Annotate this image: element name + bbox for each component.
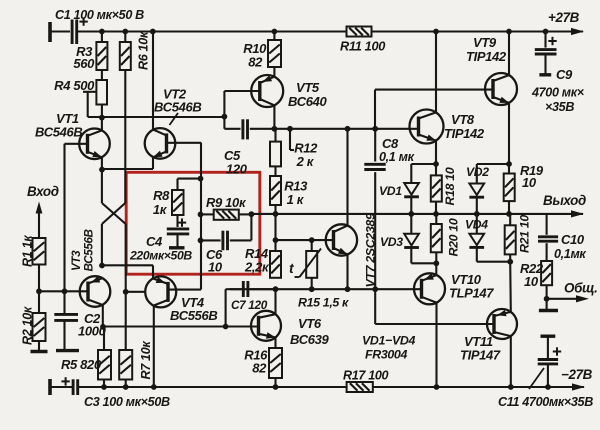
label stub R12 [287,126,294,150]
wire VT5 collector [273,105,275,129]
svg-text:82: 82 [252,361,267,376]
node R15 bottom [309,286,315,292]
svg-text:VD1: VD1 [379,184,402,198]
node VT10 emitter top [433,260,439,266]
svg-text:VT6: VT6 [298,316,322,331]
resistor R2 [21,306,46,345]
svg-text:С9: С9 [556,67,573,82]
node R18 out [433,211,439,217]
node VT11 collector bottom [508,384,514,390]
wire R1-R2 [38,265,40,314]
svg-text:VT3: VT3 [70,250,83,271]
wire cross a [102,203,126,224]
node C8 top [372,126,378,132]
wire common down [546,299,548,309]
svg-text:С1 100 мк×50 В: С1 100 мк×50 В [55,8,144,22]
wire C5 corner [224,117,240,129]
svg-text:VD1−VD4: VD1−VD4 [362,334,415,348]
node R5 bottom [101,384,107,390]
svg-text:TIP142: TIP142 [444,126,485,141]
svg-text:С10: С10 [561,232,585,247]
wire VT7 emitter [346,254,348,289]
wire VT5 base [224,91,259,117]
wire VT8 emitter [435,141,437,164]
node VT3 emitter [99,263,153,269]
svg-text:R1 1к: R1 1к [21,235,35,267]
svg-text:VT9: VT9 [473,35,497,50]
output arrow [543,193,586,218]
node feedback R8 [198,176,204,182]
transistor VT11 [460,309,517,363]
node VD1 out [408,211,414,217]
wire VT8 collector [435,32,437,113]
transistor VT7 [326,213,378,287]
svg-text:10: 10 [208,260,223,275]
node C11 bottom [545,384,551,390]
svg-text:С4: С4 [146,234,163,249]
node VT1 collector [99,105,105,131]
node VT4 base [123,289,146,295]
+27V arrow [548,10,584,35]
diode VD1 [379,183,419,214]
svg-text:Выход: Выход [543,193,586,208]
diode VD3 [380,214,419,263]
svg-text:0,1мк: 0,1мк [554,247,586,261]
wire R2 bottom [38,341,40,352]
wire -rail right [373,386,584,388]
node VT7 emitter [345,286,351,292]
svg-text:ВС546В: ВС546В [35,125,82,140]
wire VT10 collector [435,303,437,387]
transistor VT9 [466,35,517,105]
resistor R16 [244,337,282,387]
node R13 bottom [273,211,279,217]
wire VT4 collector [153,306,155,388]
diodes label [362,334,415,362]
node R3 top [99,29,105,35]
terminator R2 [31,350,48,353]
resistor R10 [243,32,281,77]
node VT4 collector bottom [151,384,157,390]
node R19 out [506,211,512,217]
wire VT1 base [65,144,88,291]
resistor R1 [21,235,46,267]
svg-text:Общ.: Общ. [564,281,598,296]
node R15 top [309,237,315,243]
wire VT11 base leg [375,289,494,324]
capacitor C6 [201,214,252,274]
wire bias line [230,288,375,290]
node VT8 emitter [433,161,439,167]
svg-text:С8: С8 [382,136,399,151]
node VT10 collector bottom [434,384,440,390]
transistor VT4 [145,276,217,323]
wire VT9 base line [375,90,493,128]
svg-text:10: 10 [524,274,539,289]
capacitor C8 [364,129,414,289]
svg-text:VD2: VD2 [466,165,489,179]
node R14 bottom [273,286,279,292]
transistor VT6 [251,311,330,347]
svg-text:R5 820: R5 820 [61,357,102,372]
wire +rail right [372,30,584,32]
svg-text:2,2к: 2,2к [244,260,270,275]
terminator C2 [56,349,79,352]
transistor VT3 [70,229,110,306]
capacitor C5 [224,119,248,176]
node VAS out [272,126,278,132]
wire VT3 emitter net [101,224,103,266]
highlight box around feedback network R8 C4 R9 C6 [126,172,260,274]
resistor R9 [201,195,252,220]
resistor R5 [61,327,111,387]
wire VD1 branch [411,164,436,183]
svg-text:2 к: 2 к [296,154,315,169]
wire VT2 collector [152,32,154,130]
capacitor C10 [538,214,586,261]
common arrow [547,281,598,303]
resistor R7 [119,341,153,387]
svg-text:1 к: 1 к [287,192,305,207]
wire VAS lower line [103,325,259,327]
wire feedback vertical [200,143,202,290]
svg-text:ВС546В: ВС546В [154,100,201,115]
svg-text:Вход: Вход [27,184,59,199]
node VT7 collector top [345,126,351,132]
node C6 left [198,238,204,244]
wire VT11 collector [510,336,512,387]
svg-text:ВС556В: ВС556В [83,229,96,271]
node C9 top [543,29,549,35]
svg-text:TIP142: TIP142 [466,49,507,64]
wire base line VT3 [39,290,88,292]
wire output line [251,213,583,215]
capacitor C3 [61,377,170,409]
diode VD2 [466,165,489,214]
terminator common [539,309,558,312]
thermistor R15 [289,240,349,309]
resistor R13 [270,176,308,207]
node bias-driver junction [372,286,378,292]
wire [50,30,70,32]
resistor R19 [504,163,544,214]
svg-text:ВС640: ВС640 [288,94,328,109]
resistor R6 [120,31,151,70]
transistor VT5 [251,75,327,109]
svg-text:VТ8: VТ8 [451,112,475,127]
svg-text:R15 1,5 к: R15 1,5 к [298,296,349,310]
svg-text:82: 82 [248,55,263,70]
resistor R8 [153,188,184,217]
wire VT9 collector [508,32,510,76]
node VT5 base [222,114,228,120]
svg-text:560: 560 [73,56,95,71]
svg-text:R20 10: R20 10 [447,218,461,256]
node VT3 collector [100,305,106,330]
-27V arrow [561,367,593,391]
resistor R12 [270,129,318,169]
input terminal top-left [48,22,52,42]
wire +rail left [77,30,347,32]
svg-text:R21 10: R21 10 [518,215,532,253]
svg-text:R18 10: R18 10 [443,167,457,205]
node VT1 emitter [99,157,105,203]
svg-text:ВС639: ВС639 [290,332,330,347]
svg-text:4700 мк×: 4700 мк× [531,86,585,100]
svg-text:VD3: VD3 [380,235,403,249]
transistor VT10 [414,272,494,304]
wire bias top line [276,239,334,241]
wire VT4 emitter drop [152,265,154,278]
svg-text:С7 120: С7 120 [231,298,268,312]
resistor R3 [73,32,107,72]
node VT2 collector top [150,29,156,35]
svg-text:VD4: VD4 [465,218,488,232]
node input base [36,288,42,294]
wire VT6 collector [274,289,276,314]
wire VT1 collector line [88,116,225,118]
svg-text:1к: 1к [153,202,168,217]
svg-text:R8: R8 [153,188,170,203]
input terminal bottom-left [48,379,52,395]
wire tail down [125,224,127,350]
node R10 top [272,29,278,35]
capacitor C1 [55,8,144,44]
wire VT10 in [435,263,437,275]
node R9 left [198,212,204,218]
capacitor C9 [531,32,585,115]
node VT11 emitter top [507,259,513,265]
wire R8-C4 [176,215,178,227]
resistor R21 [505,214,532,262]
wire VAS top line [250,128,419,130]
wire VT7 collector [346,129,348,226]
capacitor C11 [498,336,593,409]
svg-text:TIP147: TIP147 [460,348,501,363]
wire VD4 join [477,261,510,263]
input arrow Vhod [27,184,59,238]
wire VD3 join [411,262,436,264]
svg-text:10: 10 [522,175,537,190]
terminator C9 [539,73,551,76]
transistor VT1 [35,111,110,159]
node VT9 collector rail [506,29,512,35]
node R14 top [273,237,279,243]
resistor R11 [340,27,385,54]
terminator C4 [169,246,185,249]
svg-text:0,1 мк: 0,1 мк [379,150,415,164]
wire [50,386,73,388]
wire R12-R13 [274,166,276,176]
node R16 bottom [273,384,279,390]
node feedback tap [249,211,255,217]
svg-text:220мк×50В: 220мк×50В [129,249,192,263]
node VT8 collector rail [433,29,439,35]
wire cross b [102,203,125,224]
svg-text:ВС556В: ВС556В [170,308,217,323]
node C2 top [62,288,68,294]
node R7 bottom [123,384,129,390]
svg-text:R2 10к: R2 10к [21,306,35,345]
svg-text:FR3004: FR3004 [365,348,407,362]
wire VD2 branch [477,164,509,184]
wire R14 top drop [274,214,276,251]
wire VT10 base [375,288,421,290]
svg-text:TLP147: TLP147 [449,286,494,301]
wire R13 bottom [274,205,276,214]
node VT9 emitter [506,161,512,167]
wire VT4 base out [168,289,201,291]
svg-text:120: 120 [226,162,248,177]
wire VT11 in [509,262,512,312]
transistor VT8 [410,110,485,144]
svg-text:−27В: −27В [561,367,593,382]
resistor R22 [520,261,552,299]
resistor R18 [431,164,457,214]
node R6 top [122,29,128,35]
transistor VT2 [145,87,202,159]
svg-text:С3 100 мк×50В: С3 100 мк×50В [84,395,170,409]
svg-text:×35В: ×35В [545,100,574,114]
wire R8 top [178,179,201,190]
svg-text:R7 10к: R7 10к [139,341,153,380]
svg-text:R11 100: R11 100 [340,39,385,54]
wire emitters VT1-VT2 [102,157,153,169]
svg-text:VT5: VT5 [296,80,320,95]
capacitor C7 [226,281,276,327]
wire VT9 emitter [508,103,510,164]
capacitor C4 [129,218,192,262]
svg-text:R9 10к: R9 10к [206,195,247,210]
resistor R14 [244,246,281,278]
svg-text:R17 100: R17 100 [343,369,389,383]
node VD4 top [474,211,480,217]
capacitor C2 [54,291,106,350]
node C7 branch [223,324,229,330]
wire -rail left [78,386,347,388]
svg-text:+27В: +27В [548,10,580,25]
wire R3-R4 [101,70,103,80]
node common [544,296,550,302]
diode VD4 [465,214,488,262]
resistor R17 [343,369,389,393]
wire R6 down [124,70,126,203]
svg-text:R6 10к: R6 10к [137,31,151,70]
resistor R20 [431,214,461,263]
svg-text:С11 4700мк×35В: С11 4700мк×35В [498,395,593,409]
resistor R4 (trim) [54,78,107,117]
wire VT2 base [167,142,202,144]
